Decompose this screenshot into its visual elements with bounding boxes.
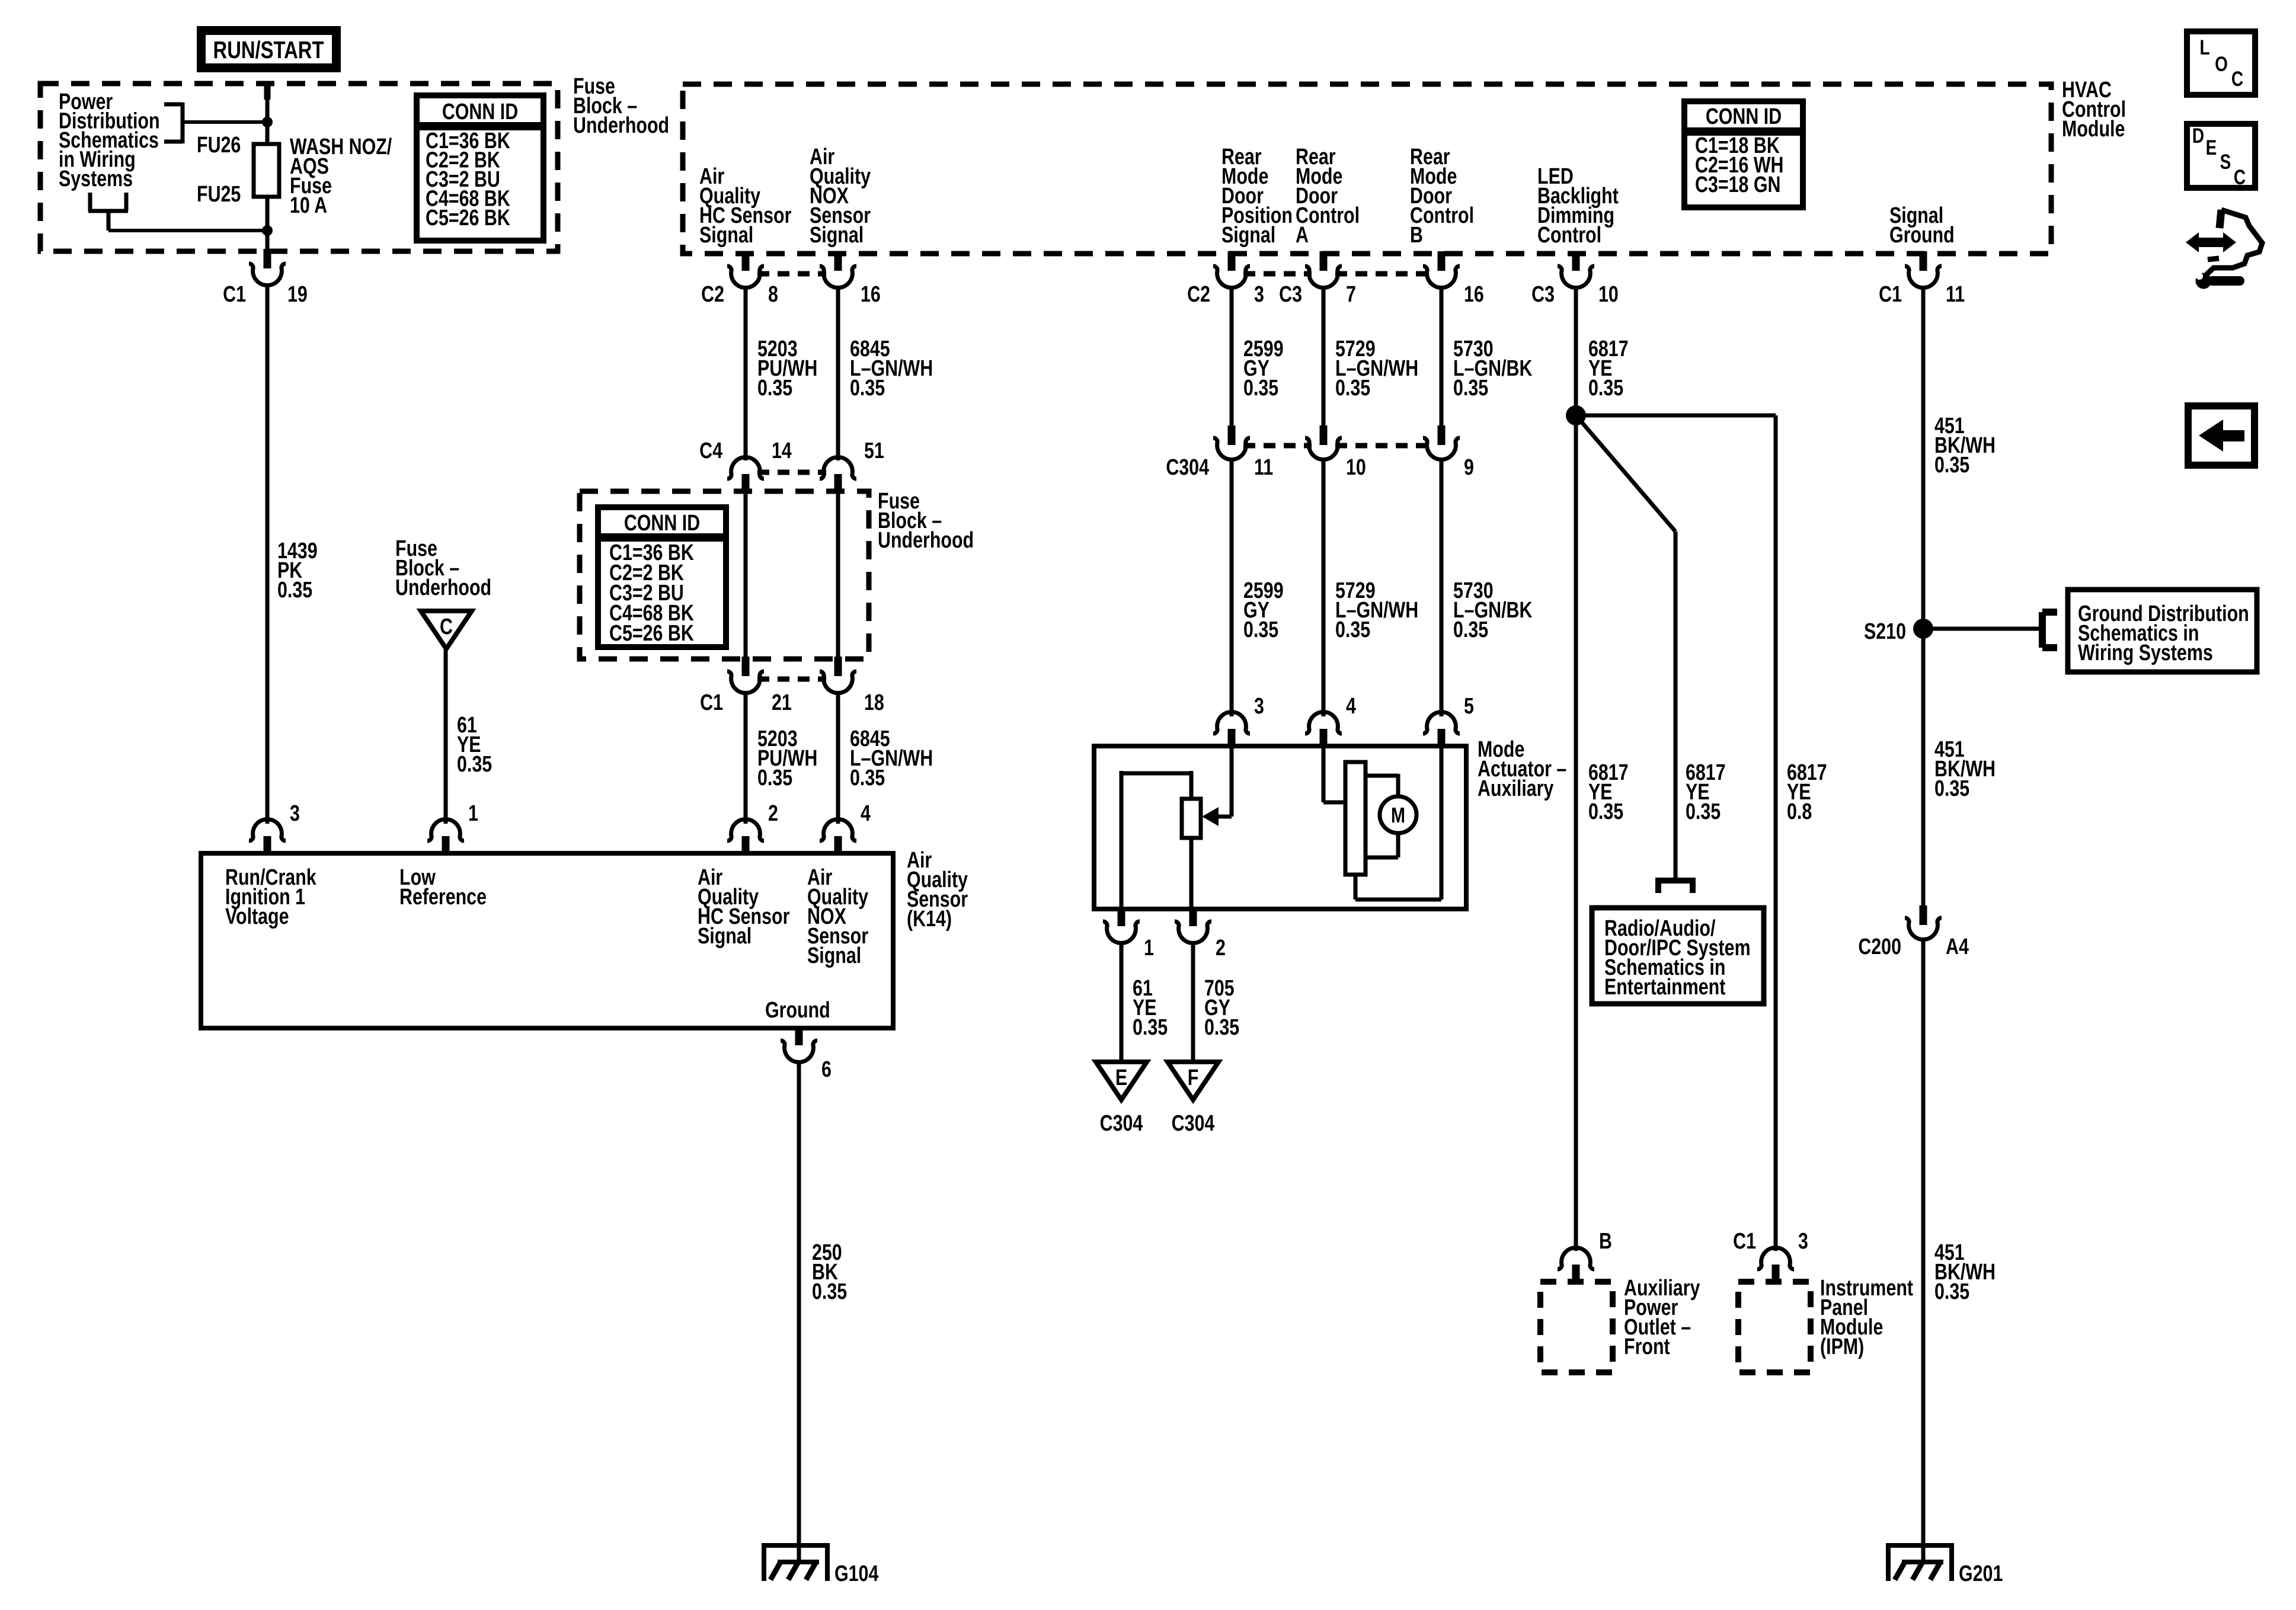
svg-text:C2: C2: [1187, 282, 1210, 307]
CONN ID table (fuse block 1): [417, 95, 543, 241]
fuse FU25/FU26 WASH NOZ/AQS 10A: [254, 144, 279, 197]
svg-text:Wiring Systems: Wiring Systems: [2078, 641, 2213, 665]
connector pin 2 (wiper output): [1175, 907, 1226, 961]
fuse block underhood box 2 (dashed): [580, 491, 869, 659]
wire bridge C2 8-16: [757, 271, 826, 277]
svg-text:G104: G104: [834, 1561, 878, 1586]
wire 6845 L-GN/WH (lower): [836, 691, 840, 824]
wire bridge C304 10-9: [1335, 443, 1430, 449]
connector C3 pin 7 (rear mode door control A): [1279, 251, 1356, 307]
svg-text:C: C: [440, 614, 453, 639]
svg-text:B: B: [1599, 1229, 1612, 1254]
svg-text:C: C: [2231, 67, 2243, 91]
wire 5730 L-GN/BK (lower): [1440, 457, 1444, 716]
svg-text:CONN ID: CONN ID: [442, 100, 518, 124]
svg-text:C3: C3: [1279, 282, 1302, 307]
connector pin 4 (NOX sensor signal): [820, 801, 871, 856]
label Fuse Block - Underhood (middle): [878, 489, 974, 553]
svg-text:2: 2: [1216, 936, 1226, 961]
bracket to ground distribution schematics: [2042, 612, 2057, 648]
connector C304 pin 10: [1305, 425, 1366, 480]
svg-text:2: 2: [768, 801, 778, 826]
svg-text:E: E: [1115, 1065, 1127, 1090]
svg-text:Voltage: Voltage: [225, 904, 289, 929]
svg-text:0.35: 0.35: [850, 766, 885, 790]
svg-text:D: D: [2192, 124, 2204, 148]
wire bridge C304 11-10: [1243, 443, 1312, 449]
connector pin 3 (mode actuator position): [1213, 694, 1264, 748]
connector pin 2 (HC sensor signal): [727, 801, 778, 856]
svg-text:0.35: 0.35: [1934, 1279, 1969, 1304]
svg-text:FU26: FU26: [197, 133, 241, 158]
svg-text:Front: Front: [1624, 1334, 1670, 1359]
label 6817 YE 0.35 (upper): [1588, 337, 1629, 401]
fuse block underhood box 1 (dashed): [40, 84, 558, 251]
label Run/Crank Ignition 1 Voltage: [225, 865, 316, 929]
svg-text:6: 6: [821, 1057, 832, 1082]
wire 6817 YE 0.8 to IPM: [1576, 415, 1776, 1251]
svg-text:Signal: Signal: [699, 223, 753, 248]
svg-text:10 A: 10 A: [290, 193, 327, 218]
svg-text:Underhood: Underhood: [878, 528, 974, 553]
svg-text:11: 11: [1254, 455, 1273, 480]
connector C1 pin 21: [700, 657, 792, 715]
connector C1 pin 18: [820, 657, 884, 715]
svg-text:Auxiliary: Auxiliary: [1478, 776, 1553, 801]
connector pin 1 (low reference): [427, 801, 478, 856]
label 5730 L-GN/BK 0.35: [1453, 337, 1533, 401]
wire bridge pins 7-16: [1335, 271, 1430, 277]
svg-text:0.35: 0.35: [1588, 799, 1623, 824]
svg-text:Control: Control: [1537, 223, 1601, 248]
icon LOC box: [2187, 31, 2255, 95]
icon back arrow box: [2188, 406, 2255, 465]
wire 5729 L-GN/WH (lower): [1322, 457, 1326, 716]
connector C3 pin 16 (rear mode door control B): [1423, 251, 1484, 307]
connector pin 1 (mode actuator low ref): [1103, 907, 1154, 961]
label 61 YE 0.35: [457, 713, 492, 777]
label HVAC Control Module: [2062, 78, 2126, 142]
svg-text:(IPM): (IPM): [1820, 1334, 1864, 1359]
label Air Quality NOX Sensor Signal (sensor): [807, 865, 868, 968]
wire 250 BK to G104: [797, 1061, 801, 1564]
svg-text:A4: A4: [1946, 934, 1969, 959]
wire 5729 L-GN/WH (upper): [1322, 286, 1326, 425]
label Mode Actuator - Auxiliary: [1478, 737, 1566, 801]
svg-text:9: 9: [1464, 455, 1474, 480]
svg-text:RUN/START: RUN/START: [213, 36, 324, 63]
connector C3 pin 10 (LED backlight dimming): [1531, 251, 1619, 307]
connector pin 3 (run/crank ignition 1 voltage): [249, 801, 300, 856]
svg-text:C1: C1: [1733, 1229, 1756, 1254]
svg-text:16: 16: [861, 282, 881, 307]
svg-text:3: 3: [1254, 694, 1264, 719]
label box Radio/Audio/Door/IPC System Schematics in Entertainment: [1592, 908, 1764, 1004]
label 6845 L-GN/WH 0.35: [850, 337, 933, 401]
svg-text:FU25: FU25: [197, 182, 241, 207]
svg-text:0.8: 0.8: [1787, 799, 1812, 824]
svg-text:(K14): (K14): [907, 907, 952, 932]
node E (C304 reference triangle): [1096, 1062, 1147, 1100]
svg-text:Systems: Systems: [59, 167, 133, 191]
label 5203 PU/WH 0.35: [757, 337, 817, 401]
label 5729 L-GN/WH 0.35: [1335, 337, 1418, 401]
CONN ID table (fuse block): [598, 507, 726, 647]
connector C304 pin 11: [1166, 425, 1273, 480]
svg-text:CONN ID: CONN ID: [1706, 104, 1782, 129]
svg-text:C5=26 BK: C5=26 BK: [609, 621, 694, 646]
svg-text:O: O: [2215, 52, 2228, 76]
svg-text:11: 11: [1946, 282, 1965, 307]
label Signal Ground: [1889, 203, 1955, 248]
auxiliary power outlet front box (dashed): [1540, 1282, 1613, 1372]
svg-text:0.35: 0.35: [1335, 617, 1370, 642]
svg-text:C1: C1: [1879, 282, 1902, 307]
connector C304 pin 9: [1423, 425, 1474, 480]
connector pin B (aux power outlet): [1558, 1229, 1612, 1284]
svg-text:C4: C4: [699, 438, 722, 463]
potentiometer wiper arrow: [1202, 747, 1232, 826]
svg-text:0.35: 0.35: [277, 578, 312, 603]
svg-text:M: M: [1391, 803, 1405, 827]
connector pin 4 (control A): [1305, 694, 1356, 748]
CONN ID table (HVAC): [1684, 101, 1803, 207]
connector C4 pin 51: [820, 438, 884, 494]
svg-text:4: 4: [861, 801, 871, 826]
wire 5730 L-GN/BK (upper): [1440, 286, 1444, 425]
svg-text:0.35: 0.35: [1453, 617, 1488, 642]
svg-text:10: 10: [1346, 455, 1366, 480]
svg-text:1: 1: [1144, 936, 1154, 961]
svg-text:Signal: Signal: [807, 943, 861, 968]
svg-text:Signal: Signal: [1221, 223, 1275, 248]
svg-text:A: A: [1296, 223, 1309, 248]
svg-text:C5=26 BK: C5=26 BK: [426, 206, 510, 231]
connector pin 6 (sensor ground): [781, 1026, 832, 1082]
svg-text:C304: C304: [1172, 1111, 1215, 1136]
wire bridge C1 21-18: [757, 677, 826, 682]
svg-text:0.35: 0.35: [812, 1279, 847, 1304]
svg-text:0.35: 0.35: [757, 376, 792, 401]
potentiometer (mode position feedback): [1121, 771, 1201, 909]
connector C1 pin 19 (fuse block output): [249, 249, 286, 286]
svg-text:0.35: 0.35: [1934, 776, 1969, 801]
svg-text:0.35: 0.35: [1243, 376, 1278, 401]
svg-text:0.35: 0.35: [1588, 376, 1623, 401]
wire 6817 YE to aux power outlet: [1574, 415, 1578, 1251]
svg-text:C2: C2: [701, 282, 724, 307]
svg-text:0.35: 0.35: [1133, 1015, 1168, 1040]
label box Ground Distribution Schematics in Wiring Systems: [2068, 590, 2257, 672]
svg-text:10: 10: [1598, 282, 1619, 307]
label 2599 GY 0.35 (lower): [1243, 578, 1284, 642]
svg-text:3: 3: [1254, 282, 1264, 307]
connector C2 pin 3 (rear mode door position): [1187, 251, 1264, 307]
svg-text:0.35: 0.35: [1335, 376, 1370, 401]
label 1439 PK 0.35: [277, 539, 318, 603]
air quality sensor K14 box: [201, 853, 893, 1028]
label Low Reference: [399, 865, 487, 910]
HVAC control module box (dashed): [683, 84, 2051, 254]
wire bridge pins 3-7: [1243, 271, 1312, 277]
svg-text:19: 19: [287, 282, 308, 307]
label 6817 YE 0.35 (radio): [1686, 760, 1726, 824]
svg-text:0.35: 0.35: [1204, 1015, 1239, 1040]
wire 6817 YE diagonal to radio/audio systems: [1576, 415, 1675, 879]
svg-text:8: 8: [768, 282, 778, 307]
wire 1439 PK to sensor pin 3: [266, 286, 270, 824]
label 2599 GY 0.35: [1243, 337, 1284, 401]
wire 2599 GY (lower): [1230, 457, 1234, 716]
svg-text:0.35: 0.35: [1686, 799, 1721, 824]
node junction S (feed/fuse): [262, 117, 273, 127]
node junction (fuse output): [262, 225, 273, 236]
label Power Distribution Schematics in Wiring Systems: [59, 89, 160, 191]
connector C2 pin 8 (HC sensor signal): [701, 251, 778, 307]
svg-text:C3=18 GN: C3=18 GN: [1695, 172, 1780, 197]
icon DESC box: [2187, 124, 2255, 189]
svg-text:Underhood: Underhood: [395, 575, 491, 600]
svg-text:G201: G201: [1959, 1561, 2003, 1586]
label 451 BK/WH 0.35 (upper): [1934, 414, 1996, 478]
wire 5203 PU/WH (lower): [744, 691, 748, 824]
svg-text:16: 16: [1464, 282, 1484, 307]
bracket to radio/audio schematics: [1655, 881, 1696, 893]
bracket under Systems (power return): [88, 193, 267, 231]
svg-text:Signal: Signal: [698, 924, 752, 949]
wire 61 YE to C304 E: [1120, 942, 1124, 1062]
label Air Quality HC Sensor Signal (module pin): [699, 164, 791, 248]
connector C2 pin 16 (NOX sensor signal): [820, 251, 881, 307]
svg-text:4: 4: [1346, 694, 1356, 719]
svg-text:3: 3: [290, 801, 300, 826]
label 5729 L-GN/WH 0.35 (lower): [1335, 578, 1418, 642]
svg-text:S: S: [2220, 150, 2231, 174]
node C (fuse block underhood reference triangle): [421, 611, 472, 649]
svg-text:Ground: Ground: [1889, 223, 1955, 248]
svg-text:5: 5: [1464, 694, 1474, 719]
connector C1 pin 3 (IPM): [1733, 1229, 1808, 1284]
svg-text:C304: C304: [1166, 455, 1209, 480]
svg-text:Ground: Ground: [765, 998, 830, 1023]
ground G201: [1886, 1545, 1954, 1581]
label 61 YE 0.35 (lower): [1133, 976, 1168, 1040]
wire 6817 YE (upper): [1574, 286, 1578, 415]
label 5730 L-GN/BK 0.35 (lower): [1453, 578, 1533, 642]
svg-text:0.35: 0.35: [757, 766, 792, 790]
svg-text:18: 18: [864, 690, 884, 715]
label 6817 YE 0.35 (aux): [1588, 760, 1629, 824]
svg-text:C1: C1: [700, 690, 723, 715]
svg-text:Signal: Signal: [810, 223, 864, 248]
svg-text:Reference: Reference: [399, 885, 487, 910]
connector C1 pin 11 (signal ground): [1879, 251, 1965, 307]
label WASH NOZ/AQS Fuse 10 A: [290, 135, 392, 218]
mode actuator auxiliary box: [1094, 746, 1466, 909]
svg-text:B: B: [1410, 223, 1423, 248]
bracket to power distribution schematics: [164, 103, 267, 143]
wire through fuse block (HC): [744, 491, 748, 659]
ground G104: [762, 1545, 830, 1581]
wire 451 BK/WH (upper): [1921, 286, 1926, 629]
svg-text:E: E: [2206, 136, 2217, 159]
svg-text:Underhood: Underhood: [573, 113, 669, 138]
wire 451 BK/WH to G201: [1921, 939, 1926, 1564]
connector C200 pin A4: [1858, 905, 1969, 959]
label 6845 L-GN/WH 0.35 (lower): [850, 726, 933, 790]
wire 5203 PU/WH (upper): [744, 286, 748, 460]
wire 2599 GY (upper): [1230, 286, 1234, 425]
svg-text:C304: C304: [1100, 1111, 1143, 1136]
svg-text:0.35: 0.35: [1934, 453, 1969, 478]
label Rear Mode Door Position Signal: [1221, 145, 1293, 248]
wire 705 GY to C304 F: [1191, 942, 1195, 1062]
icon repair (double arrow, part outline, wrench): [2186, 210, 2262, 289]
svg-text:C3: C3: [1531, 282, 1555, 307]
node F (C304 reference triangle): [1168, 1062, 1219, 1100]
wire 6845 L-GN/WH (upper): [836, 286, 840, 460]
svg-text:51: 51: [864, 438, 884, 463]
connector pin 5 (control B): [1423, 694, 1474, 748]
svg-text:Module: Module: [2062, 117, 2125, 142]
node RUN/START (ignition voltage tag): [202, 31, 337, 68]
svg-text:F: F: [1188, 1065, 1199, 1090]
svg-text:C200: C200: [1858, 934, 1901, 959]
wire 451 BK/WH to C200: [1921, 629, 1926, 907]
svg-text:21: 21: [772, 690, 792, 715]
label Air Quality HC Sensor Signal (sensor): [698, 865, 789, 949]
node junction (LED backlight dimming splice): [1566, 405, 1586, 425]
svg-text:0.35: 0.35: [850, 376, 885, 401]
instrument panel module box (dashed): [1738, 1282, 1811, 1372]
wire 61 YE to sensor pin 1: [444, 649, 448, 824]
svg-text:3: 3: [1798, 1229, 1808, 1254]
label LED Backlight Dimming Control: [1537, 164, 1619, 248]
svg-text:S210: S210: [1864, 619, 1906, 644]
connector C4 pin 14 (fuse block underhood): [699, 438, 792, 494]
svg-text:L: L: [2199, 36, 2209, 59]
svg-text:7: 7: [1346, 282, 1356, 307]
label Auxiliary Power Outlet - Front: [1624, 1276, 1700, 1359]
wire: RUN/START feed into fuse block: [264, 81, 271, 122]
label Rear Mode Door Control A: [1296, 145, 1360, 248]
label Rear Mode Door Control B: [1410, 145, 1474, 248]
svg-text:0.35: 0.35: [457, 752, 492, 777]
label 5203 PU/WH 0.35 (lower): [757, 726, 817, 790]
svg-text:0.35: 0.35: [1243, 617, 1278, 642]
wire through fuse block (NOX): [836, 491, 840, 659]
svg-text:14: 14: [772, 438, 792, 463]
wire junction to fuse FU25/26: [266, 122, 270, 146]
svg-text:1: 1: [468, 801, 478, 826]
svg-text:CONN ID: CONN ID: [624, 511, 700, 536]
svg-text:Entertainment: Entertainment: [1604, 975, 1726, 1000]
label 451 BK/WH 0.35 (middle): [1934, 737, 1996, 801]
label Air Quality Sensor (K14): [907, 848, 968, 932]
label 250 BK 0.35: [812, 1240, 847, 1304]
label Instrument Panel Module (IPM): [1820, 1276, 1914, 1359]
svg-text:C: C: [2234, 165, 2246, 189]
label Air Quality NOX Sensor Signal (module pin): [810, 145, 871, 248]
svg-text:0.35: 0.35: [1453, 376, 1488, 401]
label Fuse Block - Underhood (top): [573, 74, 669, 138]
label 705 GY 0.35: [1204, 976, 1239, 1040]
node S210 (signal ground splice): [1864, 619, 1933, 644]
label Fuse Block - Underhood (triangle C): [395, 536, 491, 600]
wire bridge C4 14-51: [757, 470, 826, 475]
wire fuse output: [266, 197, 270, 231]
wire to C1 pin 19: [266, 231, 270, 251]
motor M (mode actuator): [1323, 747, 1441, 900]
svg-text:C1: C1: [223, 282, 246, 307]
label 451 BK/WH 0.35 (lower): [1934, 1240, 1996, 1304]
wire S210 to ground distribution bracket: [1923, 627, 2039, 631]
label 6817 YE 0.8 (IPM): [1787, 760, 1827, 824]
